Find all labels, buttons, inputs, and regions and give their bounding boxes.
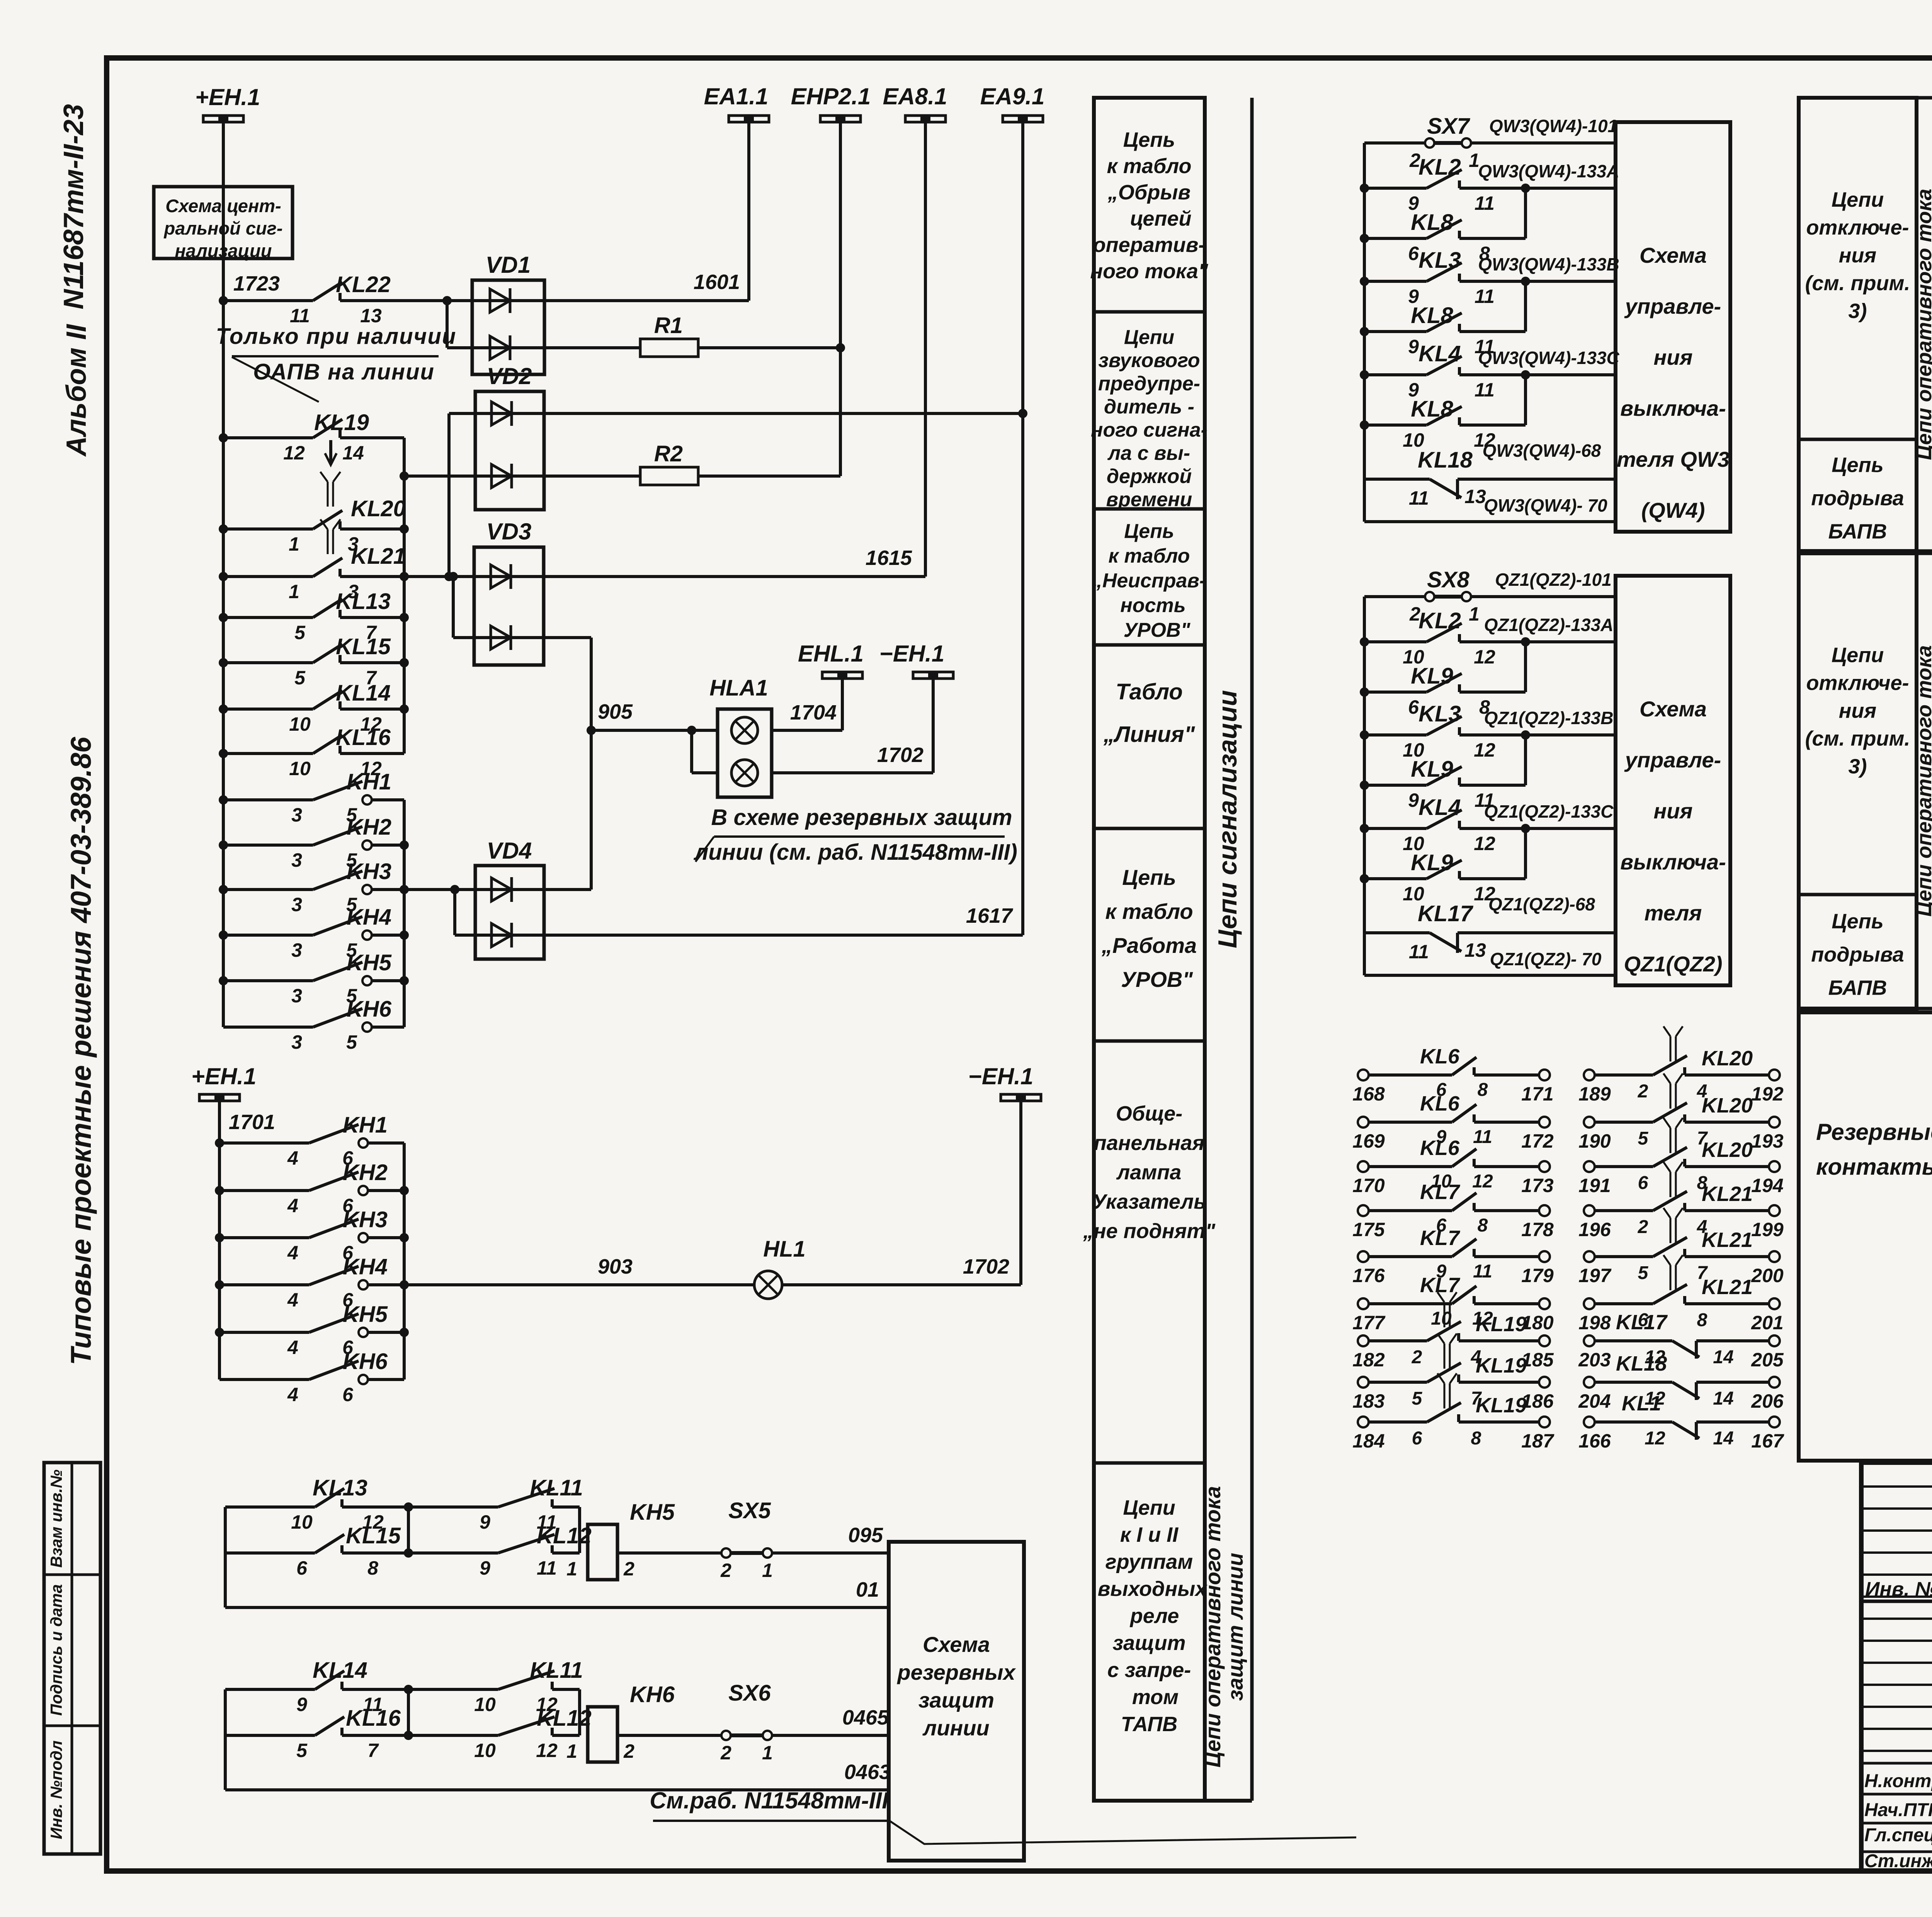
svg-text:1: 1: [762, 1742, 773, 1764]
terminal EA8.1: [905, 116, 946, 122]
svg-text:ния: ния: [1839, 244, 1876, 267]
svg-text:10: 10: [474, 1740, 496, 1761]
svg-text:−EH.1: −EH.1: [879, 641, 944, 667]
svg-text:В схеме резервных защит: В схеме резервных защит: [711, 805, 1012, 830]
svg-text:QW3(QW4)-133C: QW3(QW4)-133C: [1478, 348, 1619, 368]
svg-text:ла с вы-: ла с вы-: [1107, 442, 1190, 464]
contact KH4: [219, 930, 228, 940]
svg-text:KH5: KH5: [347, 950, 392, 975]
svg-text:KL7: KL7: [1420, 1226, 1461, 1250]
wire node to VD1 lower diode: [442, 296, 452, 305]
wire 1601 to EA1.1: [544, 299, 749, 302]
svg-text:9: 9: [1408, 789, 1419, 811]
svg-text:БАПВ: БАПВ: [1828, 976, 1887, 1000]
svg-text:KL8: KL8: [1411, 210, 1453, 235]
contact KL21: [219, 572, 228, 581]
svg-text:к I и II: к I и II: [1120, 1523, 1179, 1546]
wire 1704 to EHL.1: [772, 729, 842, 732]
svg-text:ность: ность: [1120, 594, 1185, 617]
svg-text:8: 8: [1471, 1428, 1481, 1449]
svg-text:11: 11: [1409, 487, 1429, 509]
wire VD2 lower diode: [400, 471, 409, 481]
svg-text:11: 11: [1475, 379, 1495, 401]
svg-text:3: 3: [291, 1031, 302, 1053]
svg-text:2: 2: [623, 1558, 634, 1580]
resistor R1: [544, 346, 640, 349]
legend column signalling circuits: [1094, 98, 1205, 1801]
svg-text:подрыва: подрыва: [1811, 487, 1904, 510]
svg-text:KL12: KL12: [537, 1706, 592, 1731]
svg-text:197: 197: [1578, 1265, 1612, 1286]
svg-text:отключе-: отключе-: [1806, 672, 1909, 695]
svg-text:14: 14: [342, 442, 364, 464]
wire right bus lower ladder: [403, 1143, 406, 1379]
svg-text:10: 10: [289, 758, 311, 779]
svg-text:191: 191: [1578, 1175, 1611, 1196]
svg-text:„Линия": „Линия": [1103, 722, 1196, 747]
svg-text:KL13: KL13: [313, 1475, 367, 1500]
svg-text:189: 189: [1578, 1083, 1611, 1105]
svg-text:QW3(QW4)-68: QW3(QW4)-68: [1483, 441, 1601, 461]
contact KH6: [223, 1026, 313, 1029]
svg-text:+EH.1: +EH.1: [195, 84, 260, 110]
svg-text:KL9: KL9: [1411, 757, 1453, 782]
svg-text:5: 5: [294, 622, 306, 643]
svg-text:том: том: [1132, 1686, 1179, 1709]
svg-text:ния: ния: [1839, 699, 1876, 723]
svg-text:теля: теля: [1645, 901, 1702, 925]
svg-text:095: 095: [848, 1524, 883, 1547]
svg-text:Цепи оперативного тока: Цепи оперативного тока: [1913, 189, 1932, 460]
svg-text:6: 6: [1408, 696, 1419, 718]
contact KL14: [219, 704, 228, 714]
svg-text:„Работа: „Работа: [1101, 933, 1197, 958]
svg-text:171: 171: [1521, 1083, 1553, 1105]
svg-text:KH5: KH5: [343, 1302, 388, 1327]
svg-text:отключе-: отключе-: [1806, 216, 1909, 239]
svg-text:времени: времени: [1106, 488, 1192, 511]
contact KL15: [219, 658, 228, 667]
svg-text:Только при наличии: Только при наличии: [216, 324, 457, 349]
svg-text:KH5: KH5: [630, 1500, 675, 1525]
svg-text:QZ1(QZ2)-68: QZ1(QZ2)-68: [1488, 894, 1595, 914]
svg-text:13: 13: [360, 305, 382, 327]
svg-text:KL19: KL19: [314, 410, 369, 435]
svg-text:Цепи: Цепи: [1832, 188, 1884, 211]
reserve contact KL20 (190-193): [1584, 1117, 1595, 1128]
svg-text:KL15: KL15: [346, 1523, 401, 1548]
wire VD2 upper diode feed: [449, 412, 475, 415]
svg-text:7: 7: [367, 1740, 379, 1761]
svg-text:KL13: KL13: [336, 589, 391, 614]
svg-text:10: 10: [474, 1694, 496, 1715]
svg-text:Обще-: Обще-: [1116, 1102, 1183, 1125]
svg-text:Гл.спец.: Гл.спец.: [1864, 1825, 1932, 1846]
wire bus from +EH.1: [222, 122, 225, 1027]
legend column tripping circuits QW3: [1799, 98, 1917, 551]
svg-text:169: 169: [1352, 1130, 1385, 1152]
box reserve contacts: [1799, 1012, 1932, 1461]
svg-text:R1: R1: [654, 313, 683, 338]
svg-text:KL14: KL14: [336, 680, 391, 706]
contact KH5 lower: [215, 1328, 224, 1337]
svg-text:EHP2.1: EHP2.1: [791, 83, 871, 109]
svg-text:199: 199: [1751, 1219, 1784, 1240]
contact KH2 lower: [215, 1186, 224, 1195]
svg-text:206: 206: [1751, 1390, 1784, 1412]
svg-text:1701: 1701: [229, 1111, 275, 1134]
svg-text:HL1: HL1: [763, 1237, 806, 1262]
wire VD3 lower diode to 905 node: [544, 636, 591, 639]
svg-text:192: 192: [1751, 1083, 1784, 1105]
contact KL19: [219, 433, 228, 442]
svg-text:KL11: KL11: [530, 1475, 583, 1500]
svg-text:EA1.1: EA1.1: [704, 83, 769, 109]
svg-text:4: 4: [287, 1337, 298, 1358]
svg-text:„не поднят": „не поднят": [1083, 1220, 1216, 1243]
reserve contact KL21 (196-199): [1584, 1205, 1595, 1216]
terminal EA9.1: [1003, 116, 1043, 122]
svg-text:173: 173: [1521, 1175, 1554, 1196]
svg-text:1: 1: [1469, 603, 1480, 625]
wire 903 to lamp HL1: [404, 1283, 755, 1286]
svg-text:KH2: KH2: [347, 815, 391, 840]
svg-text:QZ1(QZ2)-133A: QZ1(QZ2)-133A: [1484, 615, 1614, 635]
svg-text:Цепи оперативного тока: Цепи оперативного тока: [1201, 1486, 1225, 1767]
contact KL20: [219, 524, 228, 534]
svg-text:12: 12: [283, 442, 305, 464]
reserve contact KL21 (197-200): [1584, 1251, 1595, 1262]
reserve contact KL7 (175-178): [1358, 1205, 1369, 1216]
svg-text:KH1: KH1: [343, 1112, 388, 1138]
svg-text:KL12: KL12: [537, 1523, 592, 1548]
svg-text:12: 12: [536, 1740, 558, 1761]
terminal +EH.1: [203, 116, 243, 122]
svg-text:5: 5: [296, 1740, 308, 1761]
wire lower bus: [218, 1101, 221, 1379]
svg-text:оператив-: оператив-: [1093, 233, 1206, 257]
svg-text:KH6: KH6: [347, 997, 392, 1022]
svg-text:3: 3: [291, 894, 302, 915]
svg-text:5: 5: [346, 1031, 357, 1053]
svg-text:205: 205: [1751, 1349, 1784, 1371]
svg-text:нализации: нализации: [175, 240, 272, 261]
svg-text:ного сигна-: ного сигна-: [1091, 419, 1207, 441]
terminal EHP2.1: [820, 116, 861, 122]
svg-text:EHL.1: EHL.1: [798, 641, 864, 667]
svg-text:KL2: KL2: [1418, 608, 1461, 633]
svg-text:Цепь: Цепь: [1124, 520, 1174, 543]
svg-text:R2: R2: [654, 441, 683, 466]
contact KH3 lower: [215, 1233, 224, 1242]
svg-text:QZ1(QZ2)-133B: QZ1(QZ2)-133B: [1484, 708, 1614, 728]
svg-text:6: 6: [296, 1557, 308, 1579]
svg-text:Цепи сигнализации: Цепи сигнализации: [1213, 690, 1242, 948]
svg-text:177: 177: [1352, 1312, 1386, 1334]
reserve contact KL19 (183-186): [1358, 1377, 1369, 1388]
reserve contact KL20 (189-192): [1584, 1070, 1595, 1080]
svg-text:KL20: KL20: [351, 496, 406, 521]
svg-text:контакты: контакты: [1816, 1154, 1932, 1180]
svg-text:KL21: KL21: [1702, 1228, 1753, 1252]
wire R2 to EHP2.1 line: [698, 475, 840, 478]
margin text Album II: [61, 323, 92, 457]
svg-text:KH1: KH1: [347, 769, 391, 794]
svg-text:179: 179: [1521, 1265, 1554, 1286]
svg-text:KL19: KL19: [1476, 1354, 1527, 1377]
terminal EHL.1: [822, 672, 862, 679]
svg-text:KH3: KH3: [347, 859, 391, 884]
svg-text:EA9.1: EA9.1: [980, 83, 1045, 109]
resistor R2: [544, 475, 640, 478]
svg-text:QZ1(QZ2)- 70: QZ1(QZ2)- 70: [1490, 949, 1602, 969]
svg-text:SX8: SX8: [1427, 567, 1469, 592]
svg-text:203: 203: [1578, 1349, 1611, 1371]
svg-text:KL2: KL2: [1418, 155, 1461, 180]
reserve contact KL1 (166-167): [1584, 1417, 1595, 1427]
svg-text:KH6: KH6: [343, 1349, 388, 1374]
svg-text:1: 1: [289, 533, 299, 555]
svg-text:теля QW3: теля QW3: [1617, 447, 1730, 471]
relay chain KH6 (KL14 KL16 KL11 KL12 SX6): [224, 1689, 227, 1790]
svg-text:9: 9: [1408, 336, 1419, 357]
svg-text:2: 2: [1638, 1217, 1648, 1237]
svg-text:„Неисправ-: „Неисправ-: [1092, 570, 1206, 592]
svg-text:14: 14: [1713, 1428, 1733, 1449]
svg-text:выключа-: выключа-: [1620, 850, 1726, 874]
svg-text:11: 11: [1475, 192, 1495, 214]
svg-text:KL17: KL17: [1616, 1311, 1668, 1334]
svg-text:KL19: KL19: [1476, 1313, 1527, 1336]
contact KL22: [223, 299, 313, 302]
terminal -EH.1 lower: [1001, 1094, 1041, 1101]
svg-text:−EH.1: −EH.1: [968, 1063, 1033, 1089]
svg-text:8: 8: [1478, 1080, 1488, 1100]
svg-text:Ст.инж: Ст.инж: [1864, 1851, 1932, 1871]
svg-text:196: 196: [1578, 1219, 1611, 1240]
svg-text:KL20: KL20: [1702, 1047, 1753, 1070]
wire 1615 to EA8.1: [544, 575, 925, 578]
svg-text:11: 11: [1473, 1127, 1492, 1147]
svg-text:резервных: резервных: [896, 1660, 1016, 1684]
svg-text:Нач.ПТП: Нач.ПТП: [1864, 1800, 1932, 1820]
svg-text:3: 3: [291, 804, 302, 826]
reserve contact KL6 (168-171): [1358, 1070, 1369, 1080]
wire right bus KH group: [403, 800, 406, 1027]
label Inv No podl: [47, 1740, 65, 1839]
svg-text:905: 905: [598, 700, 633, 723]
svg-text:SX7: SX7: [1427, 114, 1470, 139]
svg-text:187: 187: [1521, 1430, 1554, 1452]
title block table: [1861, 1463, 1932, 1871]
svg-text:KL18: KL18: [1616, 1352, 1667, 1375]
svg-text:1: 1: [566, 1740, 577, 1762]
svg-text:предупре-: предупре-: [1098, 373, 1200, 395]
contact KH5: [219, 976, 228, 985]
svg-text:KH6: KH6: [630, 1682, 675, 1707]
svg-text:1: 1: [289, 581, 299, 602]
svg-text:175: 175: [1352, 1219, 1385, 1240]
svg-text:БАПВ: БАПВ: [1828, 520, 1887, 543]
svg-text:8: 8: [367, 1557, 378, 1579]
svg-text:Схема: Схема: [1639, 697, 1707, 721]
svg-text:13: 13: [1464, 486, 1486, 507]
contact KH1: [219, 795, 228, 805]
svg-text:KL21: KL21: [1702, 1182, 1753, 1206]
reserve contact KL18 (204-206): [1584, 1377, 1595, 1388]
svg-text:группам: группам: [1105, 1550, 1193, 1573]
svg-text:2: 2: [623, 1740, 634, 1762]
reserve contact KL7 (176-179): [1358, 1251, 1369, 1262]
svg-text:201: 201: [1751, 1312, 1783, 1334]
svg-text:QW3(QW4)- 70: QW3(QW4)- 70: [1484, 495, 1607, 515]
svg-text:Схема: Схема: [923, 1632, 990, 1657]
svg-text:УРОВ": УРОВ": [1124, 619, 1191, 641]
svg-text:3): 3): [1848, 755, 1867, 778]
wire VD3 lower diode feed: [452, 577, 455, 638]
svg-text:Схема цент-: Схема цент-: [165, 196, 281, 216]
svg-text:Цепь: Цепь: [1832, 454, 1883, 477]
svg-text:KL6: KL6: [1420, 1136, 1460, 1160]
svg-text:11: 11: [1409, 941, 1429, 963]
svg-text:ния: ния: [1653, 345, 1692, 369]
svg-text:14: 14: [1713, 1347, 1733, 1368]
svg-text:1617: 1617: [966, 904, 1014, 927]
svg-text:(см. прим.: (см. прим.: [1805, 272, 1910, 295]
svg-text:9: 9: [480, 1511, 490, 1533]
svg-text:167: 167: [1751, 1430, 1784, 1452]
svg-text:VD3: VD3: [486, 519, 532, 544]
svg-text:KL22: KL22: [336, 272, 391, 297]
svg-text:2: 2: [1412, 1347, 1422, 1368]
contact KH4 lower: [215, 1280, 224, 1289]
svg-text:KL17: KL17: [1418, 901, 1474, 926]
svg-text:1: 1: [566, 1558, 577, 1580]
wire VD4 upper diode output: [544, 888, 591, 891]
svg-text:10: 10: [291, 1511, 313, 1533]
svg-text:172: 172: [1521, 1130, 1554, 1152]
wire VD2 upper diode to EA9.1 line: [544, 412, 1023, 415]
svg-text:Цепи: Цепи: [1832, 644, 1884, 667]
svg-text:KH3: KH3: [343, 1207, 388, 1232]
reserve contact KL21 (198-201): [1584, 1298, 1595, 1309]
svg-text:управле-: управле-: [1624, 294, 1721, 318]
svg-text:Подпись и дата: Подпись и дата: [47, 1584, 65, 1716]
svg-text:KL4: KL4: [1418, 341, 1461, 366]
contact KH2: [219, 840, 228, 850]
terminal -EH.1: [913, 672, 953, 679]
svg-text:KL7: KL7: [1420, 1180, 1461, 1204]
svg-text:дитель -: дитель -: [1104, 396, 1194, 418]
svg-text:4: 4: [287, 1289, 298, 1311]
svg-text:Резервные: Резервные: [1816, 1119, 1932, 1145]
breaker control block QW3 (SX7 KL2 KL8 KL3 KL4 KL18): [1363, 143, 1366, 522]
svg-text:защит: защит: [918, 1688, 994, 1712]
svg-text:защит линии: защит линии: [1223, 1553, 1247, 1701]
svg-text:KL11: KL11: [530, 1658, 583, 1683]
svg-text:178: 178: [1521, 1219, 1554, 1240]
svg-text:KL21: KL21: [351, 544, 406, 569]
svg-text:3: 3: [291, 939, 302, 961]
svg-text:KL4: KL4: [1418, 795, 1461, 820]
svg-text:KH2: KH2: [343, 1160, 388, 1185]
margin text N11687tm-II-23: [58, 104, 89, 309]
svg-text:2: 2: [720, 1742, 731, 1764]
rotated label signalling circuits: [1213, 690, 1242, 948]
svg-text:170: 170: [1352, 1175, 1385, 1196]
svg-text:8: 8: [1697, 1310, 1708, 1330]
svg-text:Цепь: Цепь: [1123, 128, 1175, 151]
svg-text:линии (см. раб. N11548тм-III): линии (см. раб. N11548тм-III): [693, 840, 1017, 865]
wire 1702 to -EH.1: [772, 771, 933, 774]
svg-text:к табло: к табло: [1105, 899, 1193, 924]
svg-text:KL6: KL6: [1420, 1092, 1460, 1115]
svg-text:194: 194: [1751, 1175, 1783, 1196]
svg-text:KL15: KL15: [336, 634, 391, 659]
svg-text:QW3(QW4)-133B: QW3(QW4)-133B: [1478, 254, 1619, 274]
breaker control block QZ1 (SX8 KL2 KL9 KL3 KL4 KL17): [1363, 597, 1366, 975]
svg-text:(QW4): (QW4): [1641, 498, 1705, 522]
svg-text:204: 204: [1578, 1390, 1611, 1412]
svg-text:подрыва: подрыва: [1811, 943, 1904, 966]
wire right bus upper: [403, 438, 406, 754]
svg-text:Цепи: Цепи: [1124, 326, 1174, 349]
svg-text:EA8.1: EA8.1: [883, 83, 947, 109]
svg-text:12: 12: [1474, 739, 1495, 761]
wire 905 to lamp HLA1: [587, 726, 596, 735]
svg-text:5: 5: [1412, 1388, 1423, 1409]
svg-text:6: 6: [1412, 1428, 1422, 1449]
rotated label operative current line protections: [1201, 1486, 1247, 1767]
svg-text:4: 4: [287, 1384, 298, 1405]
svg-text:Типовые проектные решения: Типовые проектные решения 407-03-389.86: [65, 737, 97, 1365]
svg-text:Цепи оперативного тока: Цепи оперативного тока: [1913, 645, 1932, 917]
svg-text:Инв. №: Инв. №: [1865, 1578, 1932, 1601]
svg-text:0463: 0463: [844, 1761, 891, 1784]
svg-text:панельная: панельная: [1094, 1131, 1204, 1155]
svg-text:KL16: KL16: [346, 1706, 401, 1731]
svg-text:защит: защит: [1112, 1631, 1185, 1655]
contact KL13: [219, 613, 228, 622]
svg-text:12: 12: [1474, 646, 1495, 668]
svg-text:цепей: цепей: [1130, 207, 1192, 230]
svg-text:5: 5: [294, 667, 306, 689]
svg-text:4: 4: [287, 1195, 298, 1216]
svg-text:10: 10: [289, 713, 311, 735]
svg-text:ОАПВ на линии: ОАПВ на линии: [253, 359, 435, 384]
svg-text:KL18: KL18: [1418, 447, 1473, 473]
svg-text:управле-: управле-: [1624, 748, 1721, 772]
svg-text:Взам инв.№: Взам инв.№: [47, 1470, 65, 1568]
svg-text:0465: 0465: [842, 1706, 889, 1729]
wire 1702 lower to -EH.1: [782, 1283, 1021, 1286]
svg-text:Схема: Схема: [1639, 243, 1707, 267]
svg-text:Цепь: Цепь: [1122, 865, 1176, 890]
svg-text:190: 190: [1578, 1130, 1611, 1152]
svg-text:Инв. №подл: Инв. №подл: [47, 1740, 65, 1839]
svg-text:11: 11: [290, 305, 310, 327]
svg-text:9: 9: [480, 1557, 490, 1579]
contact KH6 lower: [219, 1378, 309, 1381]
svg-text:KL9: KL9: [1411, 663, 1453, 689]
svg-text:11: 11: [537, 1557, 557, 1579]
svg-text:SX5: SX5: [728, 1498, 771, 1523]
relay chain KH5 (KL13 KL15 KL11 KL12 SX5): [224, 1507, 227, 1607]
left margin stamp boxes: [44, 1463, 100, 1854]
svg-text:(см. прим.: (см. прим.: [1805, 727, 1910, 750]
svg-text:184: 184: [1352, 1430, 1384, 1452]
svg-text:„Обрыв: „Обрыв: [1107, 181, 1190, 204]
